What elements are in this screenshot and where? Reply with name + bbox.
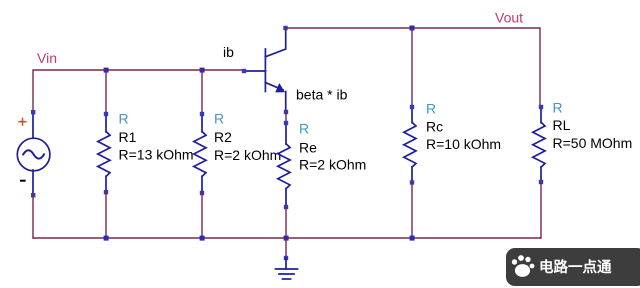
wire ground stub: [285, 238, 287, 257]
svg-text:Vout: Vout: [495, 9, 523, 25]
svg-text:R=2 kOhm: R=2 kOhm: [214, 147, 281, 163]
svg-text:Rc: Rc: [426, 119, 443, 135]
voltage source V1: [17, 112, 50, 195]
svg-text:R: R: [299, 121, 309, 137]
svg-text:R=50 MOhm: R=50 MOhm: [553, 135, 633, 151]
wire R1 top drop: [105, 70, 107, 114]
resistor R2: [194, 114, 206, 193]
wire RL bottom: [540, 182, 541, 238]
node junction R2 top: [200, 68, 205, 73]
svg-text:电路一点通: 电路一点通: [539, 258, 612, 276]
svg-text:R2: R2: [214, 129, 232, 145]
svg-text:R: R: [553, 100, 563, 116]
resistor R1: [98, 114, 110, 192]
svg-text:R=2 kOhm: R=2 kOhm: [299, 156, 366, 172]
ground: [284, 256, 288, 260]
resistor Rc: [404, 107, 416, 183]
wire emitter to Re: [285, 112, 287, 123]
wire R2 bottom: [201, 193, 203, 238]
wire Rc top drop: [411, 28, 413, 107]
node junction Rc top: [410, 26, 415, 31]
wire ground bus: [33, 237, 540, 239]
wire Re bottom: [285, 207, 287, 238]
node junction R2 bottom: [200, 236, 205, 241]
wire R2 top drop: [201, 70, 203, 114]
wire Vin horizontal: [33, 70, 244, 112]
svg-text:R: R: [119, 110, 129, 126]
watermark logo: [506, 248, 640, 286]
svg-text:R: R: [426, 101, 436, 117]
wire collector top: [286, 28, 541, 107]
svg-text:ib: ib: [223, 44, 234, 60]
resistor Re: [278, 123, 290, 207]
svg-text:R: R: [214, 110, 224, 126]
svg-text:beta * ib: beta * ib: [296, 87, 348, 103]
wire R1 bottom: [105, 192, 107, 238]
svg-text:RL: RL: [553, 117, 571, 133]
transistor Q1 (CCCS beta*ib): [244, 28, 286, 112]
node junction Re bottom: [284, 236, 289, 241]
node junction R1 top: [104, 68, 109, 73]
svg-text:Vin: Vin: [37, 50, 57, 66]
svg-text:R1: R1: [119, 129, 137, 145]
svg-text:R=13 kOhm: R=13 kOhm: [119, 146, 194, 162]
wire Rc bottom: [411, 183, 413, 239]
svg-text:R=10 kOhm: R=10 kOhm: [426, 136, 501, 152]
svg-text:Re: Re: [299, 139, 317, 155]
node junction Rc bottom: [410, 236, 415, 241]
node junction R1 bottom: [104, 236, 109, 241]
wire V1 bottom: [32, 195, 34, 238]
resistor RL: [533, 107, 545, 182]
